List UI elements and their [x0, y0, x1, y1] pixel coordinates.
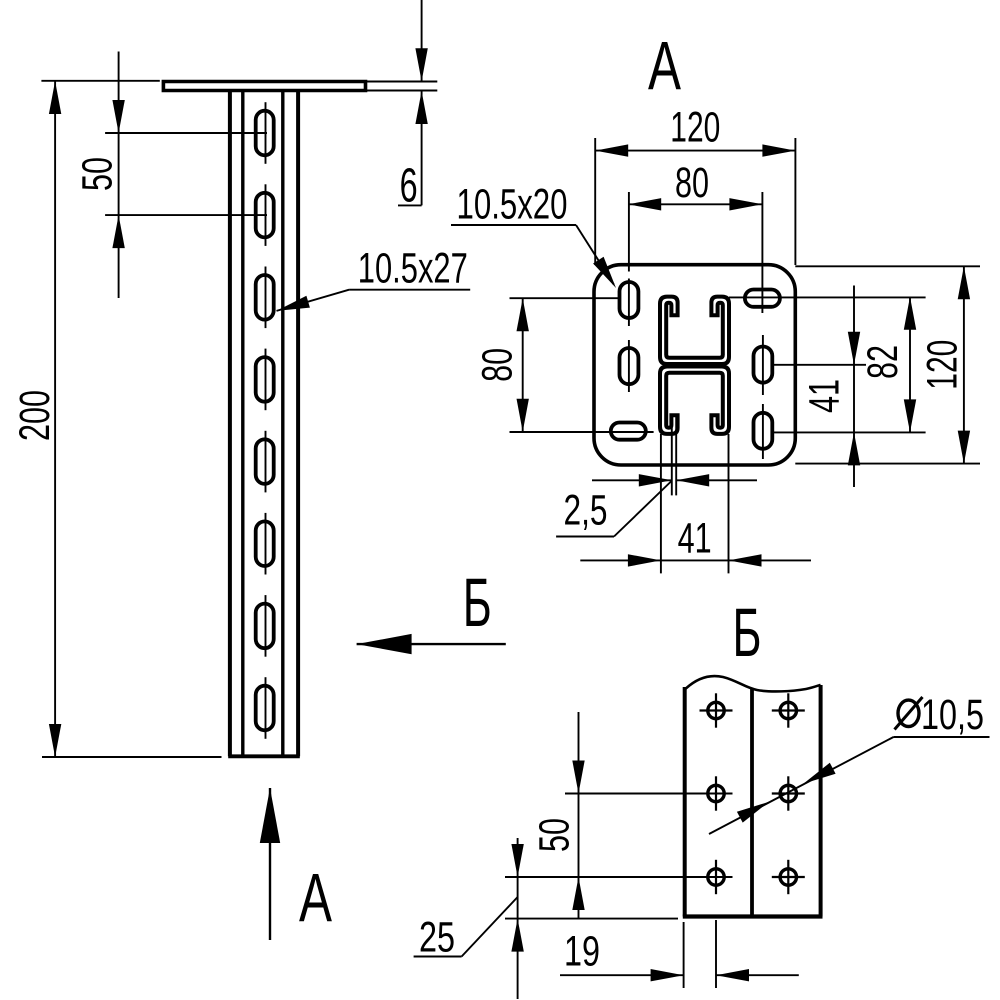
svg-text:Б: Б — [733, 594, 762, 671]
svg-text:80: 80 — [675, 159, 709, 207]
svg-text:Б: Б — [463, 564, 492, 641]
svg-text:41: 41 — [678, 515, 712, 563]
svg-text:2,5: 2,5 — [564, 487, 608, 535]
svg-text:50: 50 — [74, 157, 122, 191]
svg-text:82: 82 — [859, 345, 907, 379]
svg-text:А: А — [299, 859, 332, 936]
svg-text:50: 50 — [531, 818, 579, 852]
svg-text:41: 41 — [800, 379, 848, 413]
svg-text:А: А — [648, 28, 681, 105]
svg-text:19: 19 — [564, 928, 600, 976]
svg-text:10,5: 10,5 — [921, 691, 984, 739]
svg-text:200: 200 — [11, 390, 59, 441]
svg-text:10.5x27: 10.5x27 — [358, 245, 468, 293]
svg-text:80: 80 — [474, 348, 522, 382]
svg-text:25: 25 — [419, 914, 455, 962]
svg-text:10.5x20: 10.5x20 — [457, 180, 568, 228]
svg-text:120: 120 — [670, 104, 720, 152]
svg-text:6: 6 — [400, 160, 418, 213]
svg-text:120: 120 — [919, 340, 967, 390]
